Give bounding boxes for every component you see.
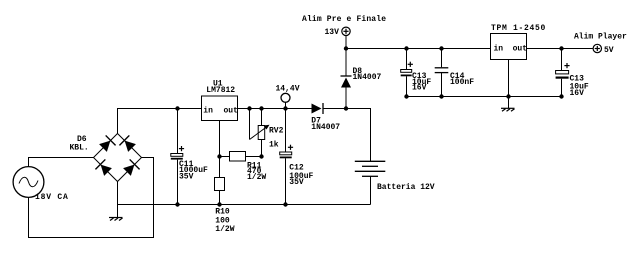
terminal 5V Alim Player: [593, 44, 601, 52]
junction dot C11 top: [175, 106, 179, 110]
lower rail right section: [407, 96, 562, 98]
svg-text:16V: 16V: [412, 84, 427, 93]
wire bridge bottom vertex to ground rail: [117, 182, 119, 205]
junction dot node: [283, 106, 287, 110]
battery Batteria 12V: [355, 161, 386, 204]
svg-text:13V: 13V: [325, 28, 340, 37]
svg-text:in: in: [203, 106, 213, 115]
ground rail: [118, 204, 371, 206]
capacitor C14: [435, 49, 449, 97]
svg-text:100nF: 100nF: [450, 78, 474, 87]
junction dot C13L bottom: [404, 94, 408, 98]
capacitor C13 left: [401, 49, 413, 97]
junction dot C14 top: [439, 46, 443, 50]
junction dot 13V: [344, 46, 348, 50]
diode D8: [341, 49, 352, 109]
regulator U1 LM7812: [202, 96, 238, 121]
junction dot RV2 bottom R11 right: [259, 154, 263, 158]
wire 13V rail: [346, 48, 491, 50]
junction dot TPM gnd: [506, 94, 510, 98]
svg-text:100: 100: [215, 216, 230, 225]
svg-text:1/2W: 1/2W: [215, 225, 234, 234]
resistor R11: [220, 152, 262, 162]
junction dot C13R bottom: [559, 94, 563, 98]
node 14,4V terminal: [281, 93, 290, 108]
resistor R10: [215, 178, 225, 205]
bridge rectifier D6 outline: [94, 134, 142, 182]
diode D7: [312, 103, 324, 114]
wire TPM out to 5V terminal: [527, 48, 594, 50]
ground stem TPM: [508, 97, 510, 109]
ground stem under bridge: [117, 205, 119, 218]
wire D7 cathode to battery corner: [323, 109, 371, 162]
bridge diode bottom-left: [95, 159, 113, 177]
svg-text:Alim Pre e Finale: Alim Pre e Finale: [302, 15, 386, 24]
potentiometer RV2: [250, 109, 270, 157]
wire U1 out rail: [238, 108, 312, 110]
junction dot C11 bottom: [175, 202, 179, 206]
ground symbol under bridge: [109, 218, 123, 221]
capacitor C13 right: [556, 49, 570, 97]
junction dot C13L top: [404, 46, 408, 50]
ground symbol TPM: [501, 108, 515, 111]
junction dot C13R top: [559, 46, 563, 50]
junction dot C14 bottom: [439, 94, 443, 98]
svg-text:1N4007: 1N4007: [311, 123, 340, 132]
svg-text:KBL.: KBL.: [70, 144, 89, 153]
bridge diode top-right: [119, 135, 137, 153]
junction dot RV2 left: [247, 106, 251, 110]
junction dot RV2 top: [259, 106, 263, 110]
svg-text:RV2: RV2: [269, 127, 284, 136]
wire TPM gnd pin: [508, 60, 510, 97]
svg-text:14,4V: 14,4V: [276, 84, 300, 93]
svg-text:1k: 1k: [269, 141, 279, 150]
wire AC bottom to bridge right vertex: [29, 158, 154, 238]
svg-text:Batteria 12V: Batteria 12V: [377, 183, 435, 192]
regulator TPM 1-2450: [491, 34, 527, 60]
junction dot C12 bottom: [283, 202, 287, 206]
svg-text:18V CA: 18V CA: [35, 193, 69, 202]
svg-text:in: in: [494, 44, 504, 53]
svg-text:1N4007: 1N4007: [353, 73, 382, 82]
svg-text:out: out: [224, 106, 239, 115]
AC source V1: [13, 167, 44, 198]
junction dot D8 anode: [344, 106, 348, 110]
svg-text:5V: 5V: [604, 46, 614, 55]
svg-text:35V: 35V: [179, 172, 194, 181]
capacitor C11: [171, 109, 184, 205]
svg-text:TPM 1-2450: TPM 1-2450: [491, 24, 546, 33]
svg-text:R10: R10: [215, 208, 230, 217]
svg-text:out: out: [513, 44, 528, 53]
svg-text:16V: 16V: [570, 89, 585, 98]
wire U1 gnd pin down: [219, 121, 221, 178]
svg-text:Alim Player: Alim Player: [574, 32, 627, 41]
svg-text:LM7812: LM7812: [206, 86, 235, 95]
svg-text:1/2W: 1/2W: [247, 173, 266, 182]
wire bridge top vertex to rail and U1 in: [118, 109, 202, 134]
junction dot U1 gnd / R11: [217, 154, 221, 158]
svg-text:35V: 35V: [289, 178, 304, 187]
junction dot R10 bottom: [217, 202, 221, 206]
wire AC top to bridge left vertex: [29, 158, 94, 167]
capacitor C12: [280, 109, 293, 205]
terminal 13V Alim Pre e Finale: [342, 27, 350, 48]
bridge diode top-left: [98, 135, 116, 153]
bridge diode bottom-right: [122, 159, 140, 177]
